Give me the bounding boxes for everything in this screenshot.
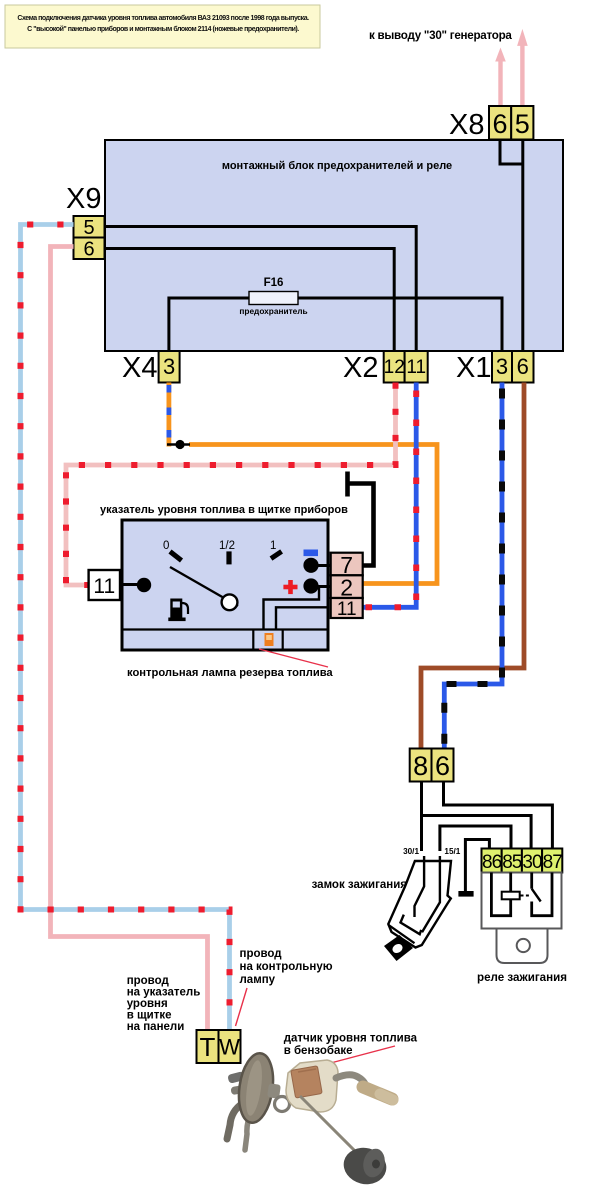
ignition switch contact 30/1: [415, 856, 425, 917]
sensor flange disc: [235, 1051, 277, 1125]
svg-text:3: 3: [496, 354, 508, 379]
terminal T: [197, 1030, 219, 1063]
svg-text:Х1: Х1: [456, 352, 491, 384]
connector X9 pin 6: [74, 238, 105, 261]
svg-text:T: T: [200, 1032, 216, 1062]
svg-text:монтажный блок предохранителей: монтажный блок предохранителей и реле: [222, 160, 452, 172]
wire: pink arrow to generator (left): [495, 48, 506, 108]
sensor float: [340, 1143, 390, 1188]
wire: blue w/ black dashes X1-3 to pin 6: [444, 383, 502, 749]
wire: X9-5 to X2-11: [105, 227, 417, 352]
relay internal: 86 to coil: [491, 873, 510, 916]
wire: blue w/ red dashes X2-11 to gauge pin 11: [363, 383, 417, 608]
svg-text:11: 11: [337, 599, 357, 620]
svg-text:1: 1: [270, 540, 276, 552]
relay internal: 87 contact: [532, 873, 552, 916]
ground wire from gauge pin 7 (to instrument body): [348, 472, 374, 566]
svg-text:лампу: лампу: [240, 974, 276, 986]
svg-text:замок зажигания: замок зажигания: [312, 879, 407, 891]
sensor outlet pipe: [336, 1075, 366, 1087]
wire: X9-6 to X2-12: [105, 249, 395, 352]
connector X9 pin 5: [74, 216, 105, 239]
sensor hub: [267, 1083, 281, 1099]
svg-text:на панели: на панели: [127, 1021, 185, 1033]
connector 8/6: pin 6: [432, 749, 454, 782]
svg-text:5: 5: [83, 217, 94, 239]
label: провод на указатель уровня в щитке на панели: [127, 975, 201, 1033]
wire: light blue w/ red dashes X9-5 to W: [21, 225, 230, 1031]
ground (body): [458, 891, 473, 897]
svg-text:в бензобаке: в бензобаке: [284, 1045, 353, 1057]
connector X2 pin 12: [384, 351, 405, 383]
fuse F16: [239, 277, 307, 316]
svg-text:6: 6: [83, 239, 94, 261]
relay body: [482, 873, 562, 929]
connector X4 pin 3: [159, 351, 180, 383]
monture block: монтажный блок: [105, 140, 563, 351]
wire: orange from junction to gauge pin 2: [189, 445, 437, 584]
relay pin 86: [482, 849, 502, 874]
connector 8/6: pin 8: [410, 749, 432, 782]
gauge plus mark: [283, 580, 297, 594]
wire: orange with blue dashes from X4-3: [166, 383, 171, 447]
svg-text:85: 85: [502, 852, 522, 873]
relay pin 85: [502, 849, 522, 874]
ignition switch key: [384, 935, 413, 961]
wire: pink arrow to generator (right): [517, 29, 528, 107]
svg-text:указатель уровня топлива в щит: указатель уровня топлива в щитке приборо…: [100, 504, 348, 516]
terminal W: [219, 1030, 241, 1063]
svg-text:11: 11: [93, 575, 115, 598]
relay coil-blade link (dashed): [521, 895, 532, 897]
svg-text:6: 6: [492, 109, 507, 139]
svg-text:12: 12: [384, 357, 405, 378]
svg-text:контрольная лампа резерва топл: контрольная лампа резерва топлива: [127, 667, 333, 679]
relay coil: [502, 892, 520, 900]
pointer to W wire: [236, 988, 248, 1026]
connector X8 pin 6: [489, 106, 511, 140]
reserve lamp icon: [265, 633, 274, 646]
connector X8 pin 5: [511, 106, 533, 140]
relay tab: [497, 929, 548, 964]
gauge pin 7: [331, 552, 363, 578]
connector X2 pin 11: [405, 351, 428, 383]
wire: ignition 15/1 to relay 85: [440, 826, 511, 851]
note box: [5, 5, 320, 48]
wire: fuse F16 left to X4-3: [169, 298, 249, 351]
sensor lower-left tubes: [227, 1103, 243, 1139]
svg-text:Схема подключения датчика уров: Схема подключения датчика уровня топлива…: [17, 14, 309, 22]
svg-text:11: 11: [406, 357, 426, 378]
wire: pin 6 to relay 87: [444, 782, 553, 849]
svg-text:5: 5: [515, 109, 530, 139]
svg-text:6: 6: [517, 354, 529, 379]
gauge pin 11: [331, 598, 363, 620]
reserve lamp wiring: [264, 587, 320, 630]
wire: brown X1-6 to pin 8: [421, 383, 524, 749]
wire: pin 8 to ignition 30/1 and relay 30: [422, 782, 532, 852]
gauge needle: [170, 567, 238, 606]
wire: X8-5 down to X1-6: [521, 140, 524, 352]
svg-text:С "высокой" панелью приборов и: С "высокой" панелью приборов и монтажным…: [27, 25, 299, 33]
ignition switch contact 15/1: [422, 856, 440, 932]
svg-text:2: 2: [340, 575, 353, 601]
gauge terminal to pin 2: [311, 585, 331, 588]
gauge node 11 (white box): [89, 570, 120, 600]
wire: relay 86 to ground: [465, 840, 489, 892]
gauge minus mark: [304, 550, 319, 557]
svg-text:6: 6: [435, 751, 450, 781]
svg-text:0: 0: [163, 540, 169, 552]
pointer to sensor: [308, 1046, 395, 1069]
svg-text:W: W: [219, 1035, 240, 1060]
svg-text:8: 8: [413, 751, 428, 781]
svg-text:реле зажигания: реле зажигания: [477, 971, 567, 984]
fuel level sensor (photo approximation): [227, 1051, 393, 1189]
svg-text:уровня: уровня: [127, 998, 168, 1010]
sensor left stub tube: [227, 1071, 245, 1084]
sensor resistor card: [291, 1066, 322, 1098]
svg-text:Х2: Х2: [343, 352, 378, 384]
svg-text:предохранитель: предохранитель: [239, 306, 307, 316]
svg-text:3: 3: [163, 354, 175, 379]
junction node on orange wire: [167, 443, 190, 445]
label: провод на контрольную лампу: [240, 948, 333, 986]
svg-text:1/2: 1/2: [219, 540, 235, 552]
gauge left terminal: [120, 583, 140, 586]
connector X1 pin 3: [492, 351, 512, 383]
svg-text:Х4: Х4: [122, 352, 157, 384]
relay pin 30: [522, 849, 542, 874]
svg-text:30/1: 30/1: [403, 847, 419, 856]
svg-text:провод: провод: [127, 975, 170, 987]
connector X1 pin 6: [512, 351, 534, 383]
wire: pink X9-6 to T: [51, 247, 208, 1031]
svg-text:на указатель: на указатель: [127, 987, 201, 999]
gauge pin 2: [331, 575, 363, 601]
fuel pump pictogram: [168, 599, 188, 622]
fuel gauge body: [122, 520, 328, 650]
svg-text:Х9: Х9: [66, 183, 101, 215]
sensor housing: [286, 1060, 338, 1112]
wire: pink w/ red dashes X2-12 to gauge 11 (white box): [66, 383, 396, 586]
svg-text:86: 86: [482, 852, 502, 873]
ignition switch contact hook: [401, 915, 422, 935]
svg-text:датчик уровня топлива: датчик уровня топлива: [284, 1033, 418, 1045]
svg-text:15/1: 15/1: [444, 847, 460, 856]
sensor float arm: [300, 1096, 356, 1152]
relay internal: 30 + switch blade: [530, 873, 533, 889]
ignition switch body: [388, 861, 451, 948]
svg-text:в щитке: в щитке: [127, 1010, 172, 1022]
pointer to reserve lamp: [259, 649, 328, 667]
relay internal: 85 to coil: [509, 873, 512, 892]
svg-text:F16: F16: [264, 277, 284, 289]
svg-text:87: 87: [543, 852, 563, 873]
svg-text:на контрольную: на контрольную: [240, 961, 333, 973]
svg-text:к выводу "30" генератора: к выводу "30" генератора: [369, 29, 512, 42]
svg-text:30: 30: [522, 852, 542, 873]
sensor wire loop: [275, 1097, 290, 1112]
gauge terminal to pin 7: [311, 564, 331, 567]
wire: X8-6 elbow inside block: [500, 140, 523, 165]
label: датчик уровня топлива в бензобаке: [284, 1033, 418, 1058]
wire: fuse F16 right to X1-3: [298, 298, 502, 351]
svg-text:провод: провод: [240, 948, 283, 960]
relay pin 87: [542, 849, 562, 874]
svg-text:Х8: Х8: [449, 109, 484, 141]
